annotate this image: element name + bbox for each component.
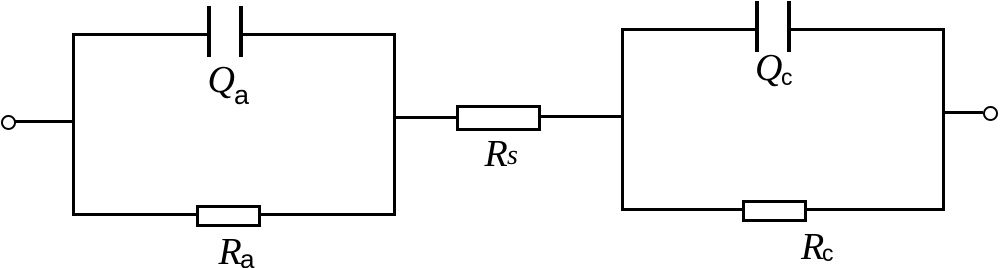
label Rc [801, 225, 824, 268]
wire: left block bottom rail left segment [72, 213, 199, 216]
wire: left block left vertical [72, 33, 75, 216]
capacitor Qc left plate [755, 1, 759, 52]
resistor Rs [456, 105, 541, 131]
label Qc [755, 46, 782, 90]
wire: right block top rail left segment [621, 28, 756, 31]
wire: left block bottom rail right segment [260, 213, 396, 216]
label Qa [208, 58, 235, 102]
wire: right block top rail right segment [790, 28, 944, 31]
resistor Ra [196, 205, 261, 227]
resistor Rc [742, 200, 808, 222]
wire: right block left vertical [621, 28, 624, 211]
wire: left block right vertical [393, 33, 396, 216]
wire: left block top rail right segment [241, 33, 396, 36]
label Ra [219, 230, 242, 268]
capacitor Qa left plate [207, 6, 211, 57]
wire: right block right vertical [942, 28, 945, 211]
capacitor Qa right plate [239, 6, 243, 57]
wire: Rs to right block [540, 115, 623, 118]
wire: right block to right terminal [944, 111, 983, 114]
left terminal [1, 115, 16, 130]
wire: right block bottom rail right segment [805, 208, 944, 211]
wire: node to Rs [396, 116, 456, 119]
wire: right block bottom rail left segment [621, 208, 745, 211]
label Rs [485, 132, 508, 176]
capacitor Qc right plate [787, 1, 791, 52]
wire from left terminal [14, 120, 75, 123]
right terminal [983, 106, 998, 121]
wire: left block top rail left segment [72, 33, 209, 36]
